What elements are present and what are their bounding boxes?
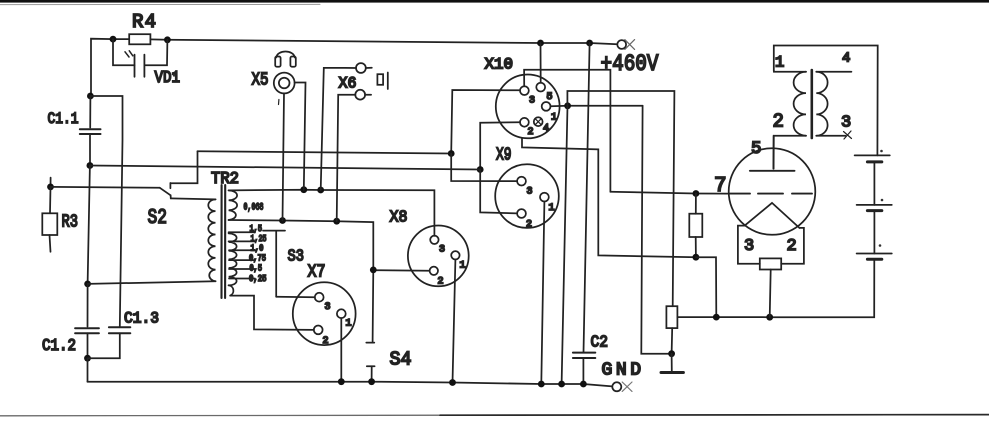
svg-text:0,068: 0,068 bbox=[244, 203, 264, 214]
node dot X9 pin1 bbox=[538, 381, 545, 388]
tube filament V bbox=[745, 203, 800, 228]
svg-text:3: 3 bbox=[744, 237, 754, 256]
wire X10 pin3 up and over to tube pin7 riser bbox=[524, 70, 610, 192]
resistor R4 bbox=[129, 34, 150, 44]
X9 pin 1 bbox=[540, 193, 549, 202]
svg-text:C1.3: C1.3 bbox=[124, 310, 159, 328]
wire left rail top corner bbox=[91, 39, 113, 96]
connector X10 bbox=[496, 75, 560, 139]
connector X6 pin bottom bbox=[355, 90, 365, 100]
node dot R4 right bbox=[164, 36, 171, 43]
wire X8 pin1 to bottom bus bbox=[453, 260, 456, 383]
wire pin1 branch corner to filament pot bbox=[567, 91, 674, 306]
wire X10 pin1 line down to ground pot bbox=[641, 106, 671, 354]
wire secondary bottom lead to X7 pin2 bbox=[230, 296, 314, 330]
svg-text:4: 4 bbox=[842, 50, 850, 66]
wire left rail to primary node bbox=[88, 166, 90, 284]
connector X9 bbox=[495, 164, 559, 228]
border frame top bar bbox=[0, 0, 989, 3]
ground chassis symbol bbox=[671, 354, 673, 372]
svg-text:3: 3 bbox=[439, 245, 445, 256]
potentiometer filament rheostat bbox=[666, 306, 677, 328]
connector X6 pin top bbox=[356, 63, 366, 73]
node dot pot bottom bbox=[668, 350, 675, 357]
svg-text:3: 3 bbox=[529, 96, 535, 107]
tap 1,0 bbox=[229, 249, 255, 251]
svg-text:X7: X7 bbox=[308, 263, 326, 283]
node dot left rail / C1.1 top bbox=[87, 93, 94, 100]
svg-text:S4: S4 bbox=[390, 348, 412, 370]
svg-text:X8: X8 bbox=[390, 209, 408, 228]
svg-text:X9: X9 bbox=[496, 146, 512, 166]
speck bbox=[173, 74, 175, 76]
svg-text:7: 7 bbox=[714, 175, 727, 198]
X7 pin 3 bbox=[315, 293, 324, 302]
node dot line B junction bbox=[477, 166, 484, 173]
wire upper secondary top lead bus to X8 bbox=[229, 190, 435, 236]
connector X5 bbox=[274, 73, 295, 94]
svg-text:+460V: +460V bbox=[601, 51, 659, 77]
capacitor C1.1 bbox=[80, 129, 101, 134]
tube anode dashed bbox=[730, 193, 812, 195]
transformer TR2 primary winding bbox=[171, 198, 216, 199]
X5 pin tick bbox=[278, 100, 280, 105]
wire cathode node to heater bus bbox=[696, 257, 716, 317]
node dot C1.2 C1.3 join bbox=[84, 355, 91, 362]
vacuum tube envelope bbox=[729, 148, 816, 235]
svg-text:2: 2 bbox=[438, 277, 444, 288]
svg-text:C1.2: C1.2 bbox=[42, 336, 76, 355]
battery cell 1 bbox=[855, 154, 890, 156]
wire line A S2 to X10pin2 vertical bbox=[198, 151, 452, 153]
tap 0,25 bbox=[229, 278, 255, 280]
switch S2 bbox=[160, 183, 171, 195]
tap 0,75 bbox=[229, 259, 255, 261]
wire X5 sleeve down to node bbox=[283, 93, 285, 220]
svg-text:1: 1 bbox=[549, 203, 555, 214]
wire tube pin7 row bbox=[610, 192, 728, 194]
node dot X8 pin1 bbox=[449, 379, 456, 386]
wire S2 contact riser bbox=[170, 151, 197, 183]
wire C1.1 bottom to node bbox=[89, 134, 91, 166]
X10 pin 1 bbox=[542, 102, 551, 111]
X10 pin 3 bbox=[520, 86, 529, 95]
svg-text:2: 2 bbox=[323, 336, 329, 347]
battery cell 2 bbox=[857, 204, 892, 206]
node dot top bus at X10 pin5 branch bbox=[537, 40, 544, 47]
X10 pin 2 bbox=[520, 118, 529, 127]
transformer TR2 tapped secondary winding bbox=[229, 233, 237, 285]
wire antenna node to S2 blade bbox=[51, 186, 160, 189]
output transformer right winding bbox=[816, 72, 827, 136]
svg-text:4: 4 bbox=[543, 124, 549, 135]
wire C2 to bottom bus bbox=[582, 358, 584, 384]
wire left rail to C1.1 bbox=[89, 96, 91, 128]
svg-text:0,75: 0,75 bbox=[249, 254, 266, 264]
antenna stub bbox=[50, 178, 52, 187]
wire grid line down to C2 bbox=[584, 43, 590, 352]
node dot X10 pin1 branch bbox=[558, 381, 565, 388]
wire C1.3 bottom to join node bbox=[88, 333, 120, 358]
node dot heater bus left bbox=[713, 314, 720, 321]
resistor cathode bbox=[689, 214, 702, 237]
tube grid cap lead bbox=[772, 136, 774, 169]
wire right winding pin3 lead bbox=[816, 135, 845, 137]
wire X5 tip down to node bbox=[295, 83, 306, 190]
node dot left rail line B bbox=[87, 162, 94, 169]
svg-text:1: 1 bbox=[551, 113, 557, 124]
node dot cathode resistor bottom bbox=[693, 254, 700, 261]
resistor R3 bbox=[50, 187, 51, 252]
wire down to X9 pin2 bbox=[480, 170, 517, 214]
node dot R3 top bbox=[47, 184, 54, 191]
svg-text:2: 2 bbox=[773, 110, 784, 132]
node dot X6 top junction bbox=[317, 187, 324, 194]
svg-text:X5: X5 bbox=[252, 71, 269, 91]
svg-text:1,0: 1,0 bbox=[251, 244, 264, 254]
output transformer left winding bbox=[774, 71, 806, 72]
svg-text:C1.1: C1.1 bbox=[48, 110, 79, 128]
battery cell 3 bbox=[857, 253, 892, 255]
node dot pin1 branch bbox=[564, 102, 571, 109]
svg-text:GND: GND bbox=[602, 361, 642, 381]
svg-text:0,25: 0,25 bbox=[249, 274, 267, 284]
node dot heater bus filament resistor bbox=[766, 314, 773, 321]
node dot line A junction bbox=[448, 150, 455, 157]
X10 pin 5 bbox=[536, 83, 545, 92]
capacitor C1.3 bbox=[109, 327, 130, 333]
wire X9 pin1 to bottom bus bbox=[541, 202, 544, 385]
X9 pin 3 bbox=[517, 177, 526, 186]
svg-text:S3: S3 bbox=[288, 248, 305, 267]
wire S3 to X7 pin3 bbox=[276, 296, 315, 298]
svg-text:R4: R4 bbox=[132, 11, 156, 33]
connector X7 bbox=[293, 282, 356, 345]
node dot R4 left bbox=[110, 36, 117, 43]
resistor filament shunt bbox=[760, 258, 781, 269]
output transformer top line bbox=[774, 46, 878, 156]
svg-text:C2: C2 bbox=[591, 334, 609, 353]
X7 pin 1 bbox=[337, 309, 346, 318]
transformer TR2 core bbox=[222, 185, 226, 298]
wire X7 pin1 to bottom bus bbox=[340, 318, 342, 382]
tap 0,5 bbox=[229, 268, 255, 270]
X10 pin 4 crossed bbox=[534, 117, 543, 126]
X7 pin 2 bbox=[314, 326, 323, 335]
wire left rail to bottom bus corner bbox=[87, 358, 89, 382]
output transformer core bbox=[810, 70, 813, 138]
tap 1,25 bbox=[229, 240, 255, 242]
node dot X6 bottom junction bbox=[333, 218, 340, 225]
tube grid bar bbox=[750, 170, 795, 172]
node dot left rail primary bottom bbox=[84, 281, 91, 288]
wire right winding pin4 lead bbox=[816, 71, 851, 73]
X8 pin 2 bbox=[430, 267, 438, 275]
diode VD1 bbox=[113, 39, 167, 65]
svg-text:2: 2 bbox=[528, 127, 534, 138]
svg-text:1: 1 bbox=[346, 319, 352, 330]
svg-text:2: 2 bbox=[787, 237, 797, 256]
svg-text:X6: X6 bbox=[339, 75, 357, 93]
wire X10 pin2 left and down bbox=[480, 122, 520, 169]
svg-text:2: 2 bbox=[526, 220, 532, 231]
wire left rail to C1.2 bbox=[87, 284, 89, 327]
wire X10 pin5 to top bus bbox=[540, 43, 542, 83]
wire X10 bottom shield down right bbox=[522, 138, 696, 257]
svg-text:VD1: VD1 bbox=[155, 69, 181, 88]
wire line B from C1.1 bbox=[90, 166, 480, 170]
capacitor C2 bbox=[573, 353, 595, 358]
tube base box bbox=[738, 226, 804, 264]
X8 pin 1 bbox=[451, 251, 459, 259]
capacitor C1.2 bbox=[75, 328, 99, 333]
svg-text:0,5: 0,5 bbox=[250, 263, 263, 273]
node dot tube pin7 bbox=[693, 190, 700, 197]
switch S3 wiper bbox=[263, 231, 285, 297]
X9 pin 2 bbox=[517, 209, 526, 218]
node dot C2 bbox=[580, 381, 587, 388]
wire TR2 primary bottom to left rail bbox=[88, 281, 216, 284]
node dot X7 pin1 bbox=[338, 378, 345, 385]
svg-text:S2: S2 bbox=[148, 207, 168, 230]
terminal GND bbox=[612, 382, 621, 391]
svg-text:3: 3 bbox=[527, 187, 533, 198]
svg-text:R3: R3 bbox=[62, 212, 79, 232]
wire top bus from R4 to +460V bbox=[167, 40, 617, 45]
node dot top bus at C2 branch bbox=[586, 40, 593, 47]
wire X10 pin1 right bbox=[551, 105, 643, 107]
wire upper secondary bottom lead bus bbox=[229, 220, 374, 270]
connector X8 bbox=[408, 226, 469, 287]
heater bus wire bbox=[716, 259, 874, 317]
svg-text:1: 1 bbox=[460, 261, 466, 272]
svg-text:1,25: 1,25 bbox=[251, 233, 267, 244]
X8 pin 3 bbox=[430, 236, 438, 244]
wire pin1 branch down to bottom bus bbox=[562, 106, 568, 384]
svg-text:3: 3 bbox=[325, 302, 331, 313]
wire riser down to X9 pin3 bbox=[451, 154, 517, 182]
wire node branch to C1.3 rail bbox=[90, 96, 122, 327]
node dot X5 sleeve junction bbox=[279, 217, 286, 224]
svg-text:3: 3 bbox=[841, 113, 851, 132]
svg-text:5: 5 bbox=[751, 139, 762, 159]
terminal +460V bbox=[617, 40, 626, 49]
transformer TR2 upper secondary winding bbox=[229, 190, 238, 220]
svg-text:X10: X10 bbox=[485, 56, 514, 74]
switch S4 bbox=[366, 270, 374, 382]
svg-text:1: 1 bbox=[775, 53, 784, 71]
node dot S4 top bbox=[370, 267, 377, 274]
node dot X5 tip junction bbox=[300, 186, 307, 193]
node dot S4 bottom bbox=[368, 378, 375, 385]
headphones icon above X5 bbox=[276, 52, 295, 58]
wire C1.2 bottom to node bbox=[87, 333, 89, 358]
border frame bottom line bbox=[0, 414, 455, 417]
bottom bus wire bbox=[88, 382, 613, 387]
plug icon X6 bbox=[377, 74, 383, 85]
tap 1,5 bbox=[229, 231, 255, 233]
wire X8 pin2 from S4 node bbox=[373, 269, 429, 272]
wire X10 pin3 left to X9 pin3 riser bbox=[451, 90, 520, 154]
